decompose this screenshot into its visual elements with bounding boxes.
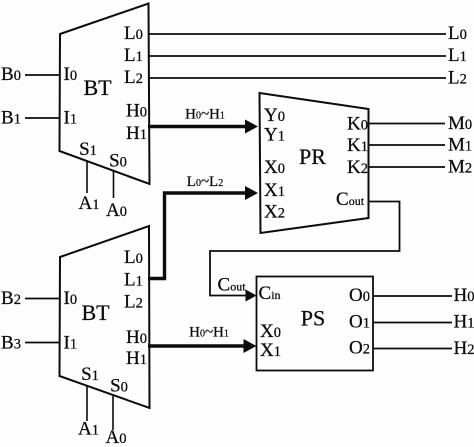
svg-text:L2: L2 xyxy=(448,68,467,89)
svg-text:L0: L0 xyxy=(124,247,143,268)
svg-text:BT: BT xyxy=(83,75,112,100)
arrowhead into PR Y inputs xyxy=(245,120,258,134)
svg-text:S0: S0 xyxy=(109,151,127,172)
svg-text:L0: L0 xyxy=(124,23,143,44)
wire K1/M1 output xyxy=(368,144,445,146)
block PS (parallel summer rectangle) xyxy=(257,277,374,371)
svg-text:BT: BT xyxy=(81,300,110,325)
svg-text:B1: B1 xyxy=(1,108,21,129)
svg-text:I0: I0 xyxy=(64,64,78,85)
wire B3 input xyxy=(25,342,59,344)
wire B1 input xyxy=(25,117,59,119)
svg-text:L1: L1 xyxy=(124,270,143,291)
svg-text:H0: H0 xyxy=(454,285,474,306)
svg-text:S0: S0 xyxy=(110,376,128,397)
wire K2/M2 output xyxy=(368,166,445,168)
svg-text:I1: I1 xyxy=(64,108,78,129)
svg-text:M0: M0 xyxy=(448,113,472,134)
svg-text:H0~H1: H0~H1 xyxy=(189,325,229,341)
wire O1/H1 output xyxy=(373,322,452,324)
block PR (priority/adder trapezoid) xyxy=(260,93,369,233)
svg-text:H1: H1 xyxy=(126,348,147,369)
svg-text:H2: H2 xyxy=(454,338,474,359)
svg-text:S1: S1 xyxy=(79,139,97,160)
svg-text:K2: K2 xyxy=(347,157,368,178)
wire L1 output xyxy=(148,55,446,57)
bus H0~H1 (BT2 to PS) xyxy=(148,344,245,347)
wire L0 output xyxy=(148,33,446,35)
svg-text:O0: O0 xyxy=(349,285,370,306)
svg-text:M2: M2 xyxy=(448,157,472,178)
svg-text:PS: PS xyxy=(301,306,325,331)
wire Cout (PR to PS Cin) xyxy=(210,202,400,296)
svg-text:L2: L2 xyxy=(124,292,143,313)
svg-text:A0: A0 xyxy=(106,200,127,221)
svg-text:A1: A1 xyxy=(79,193,100,214)
svg-text:L1: L1 xyxy=(448,45,467,66)
svg-text:H0: H0 xyxy=(126,327,147,348)
svg-text:Y0: Y0 xyxy=(264,105,285,126)
arrowhead into PR X inputs xyxy=(245,186,258,200)
svg-text:I0: I0 xyxy=(64,288,78,309)
svg-text:O2: O2 xyxy=(349,338,370,359)
bus H0~H1 (BT1 to PR) xyxy=(148,125,246,128)
wire S1 pin (BT2) xyxy=(86,386,88,421)
bus L0~L2 (BT2 to PR) xyxy=(148,193,246,279)
svg-text:O1: O1 xyxy=(349,312,370,333)
svg-text:X1: X1 xyxy=(264,180,285,201)
svg-text:X0: X0 xyxy=(264,157,285,178)
arrowhead into PS X inputs xyxy=(244,339,257,353)
svg-text:H0: H0 xyxy=(126,101,147,122)
wire K0/M0 output xyxy=(368,123,445,125)
wire O0/H0 output xyxy=(373,295,452,297)
svg-text:PR: PR xyxy=(299,144,326,169)
svg-text:L2: L2 xyxy=(124,67,143,88)
svg-text:L0: L0 xyxy=(448,23,467,44)
svg-text:X0: X0 xyxy=(260,321,281,342)
svg-text:H0~H1: H0~H1 xyxy=(185,107,225,123)
svg-text:B0: B0 xyxy=(1,64,21,85)
block BT2 (bottom barrel/bit-slice trapezoid) xyxy=(60,226,150,408)
svg-text:S1: S1 xyxy=(81,364,99,385)
block BT1 (top barrel/bit-slice trapezoid) xyxy=(60,4,150,185)
svg-text:L0~L2: L0~L2 xyxy=(187,174,223,190)
svg-text:A1: A1 xyxy=(78,419,99,440)
wire B0 input xyxy=(25,74,59,76)
svg-text:L1: L1 xyxy=(124,45,143,66)
svg-text:M1: M1 xyxy=(448,135,472,156)
svg-text:Y1: Y1 xyxy=(264,125,285,146)
wire O2/H2 output xyxy=(373,348,452,350)
svg-text:B3: B3 xyxy=(1,333,21,354)
svg-text:K1: K1 xyxy=(347,135,368,156)
wire B2 input xyxy=(25,298,59,300)
svg-text:X1: X1 xyxy=(260,340,281,361)
svg-text:B2: B2 xyxy=(1,288,21,309)
svg-text:K0: K0 xyxy=(347,114,368,135)
wire L2 output xyxy=(148,77,446,79)
arrowhead into PS Cin xyxy=(246,290,257,302)
svg-text:I1: I1 xyxy=(64,333,78,354)
wire S1 pin (BT1) xyxy=(86,162,88,193)
svg-text:X2: X2 xyxy=(264,202,285,223)
wire S0 pin (BT2) xyxy=(112,396,114,430)
wire S0 pin (BT1) xyxy=(113,171,115,198)
svg-text:H1: H1 xyxy=(454,312,474,333)
svg-text:H1: H1 xyxy=(126,123,147,144)
